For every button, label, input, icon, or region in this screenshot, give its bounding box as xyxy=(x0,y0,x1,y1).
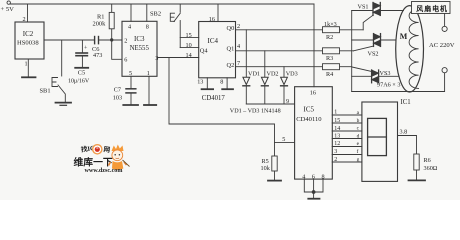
triac VS1 xyxy=(373,3,380,16)
svg-text:473: 473 xyxy=(93,52,102,59)
svg-text:VD1 – VD3 1N4148: VD1 – VD3 1N4148 xyxy=(230,109,281,115)
svg-text:VD2: VD2 xyxy=(267,70,279,77)
svg-text:VD3: VD3 xyxy=(286,70,298,77)
resistor R3 xyxy=(323,48,340,62)
node +5V terminal xyxy=(7,1,10,4)
label triac type 97A6 xyxy=(377,81,400,88)
svg-text:IC5: IC5 xyxy=(304,106,315,114)
wire IC4 pin15 stub xyxy=(180,37,199,39)
wire VS2 MT1 to motor xyxy=(381,39,397,41)
wire VS2 gate xyxy=(354,46,374,51)
wire IC4 pin16 drop xyxy=(217,4,219,22)
svg-text:10: 10 xyxy=(186,42,192,49)
display IC1 xyxy=(362,99,411,182)
resistor R4 xyxy=(323,64,340,78)
svg-text:R5: R5 xyxy=(262,158,269,165)
svg-text:+ 5V: + 5V xyxy=(1,6,15,13)
wire IC2 pin2 drop xyxy=(27,4,29,22)
wire segment d xyxy=(332,138,362,140)
svg-text:AC 220V: AC 220V xyxy=(429,42,455,49)
motor fan M xyxy=(396,6,424,92)
svg-text:C5: C5 xyxy=(78,70,85,77)
labels IC5 output pins xyxy=(334,110,340,163)
wire clock tap to IC5 xyxy=(169,58,275,157)
svg-text:2: 2 xyxy=(124,37,127,44)
wire +5V rail xyxy=(10,3,314,5)
svg-text:R4: R4 xyxy=(326,71,333,78)
node IC5 ground junction xyxy=(312,190,316,194)
pushbutton SB2 xyxy=(170,4,180,48)
ground R5 xyxy=(268,180,281,182)
svg-text:Q0: Q0 xyxy=(227,25,235,32)
wire IC4 pin13 down xyxy=(206,78,208,89)
label VS1 xyxy=(358,3,369,10)
node AC terminal top xyxy=(442,26,447,31)
svg-text:SB1: SB1 xyxy=(40,88,51,95)
ground C5 xyxy=(75,67,88,69)
label C5 value xyxy=(68,70,90,85)
svg-text:R2: R2 xyxy=(326,34,333,41)
svg-text:3: 3 xyxy=(155,55,158,62)
wire triac common line xyxy=(351,11,353,92)
wire junction down to pin6 xyxy=(112,40,122,59)
ground SB1 xyxy=(56,103,72,106)
ground IC4 pin8 xyxy=(222,88,233,90)
svg-text:14: 14 xyxy=(186,52,192,59)
wire segment e xyxy=(332,146,362,148)
labels segment letters a-g xyxy=(357,110,360,163)
wire AC bottom to common xyxy=(352,73,445,92)
svg-text:R3: R3 xyxy=(326,55,333,62)
wire segment b xyxy=(332,122,362,124)
svg-text:d: d xyxy=(357,133,360,139)
wire IC3 pin5 down xyxy=(130,76,132,88)
label pins 3.8 xyxy=(400,129,408,136)
svg-text:10μ/16V: 10μ/16V xyxy=(68,79,90,85)
counter IC5 CD40110 xyxy=(282,87,332,181)
diode VD2 xyxy=(261,51,268,104)
svg-text:IC2: IC2 xyxy=(23,30,34,38)
wire IC4 pin10 stub xyxy=(180,47,199,49)
svg-text:www.dzsc.com: www.dzsc.com xyxy=(85,168,123,174)
ground IC3 pin1 xyxy=(144,104,156,106)
svg-text:13: 13 xyxy=(197,79,203,86)
svg-text:360Ω: 360Ω xyxy=(424,165,438,172)
label SB1 xyxy=(40,88,51,95)
svg-text:VS3: VS3 xyxy=(380,70,391,77)
svg-text:CD40110: CD40110 xyxy=(296,116,322,123)
svg-text:15: 15 xyxy=(334,118,340,124)
IC2 HS0038 xyxy=(15,16,44,68)
wire IC5 pin16 drop xyxy=(313,4,315,87)
diode VD1 xyxy=(243,30,250,104)
ground C7 xyxy=(123,104,138,106)
wire VS3 MT1 to motor xyxy=(379,75,399,77)
triac VS3 xyxy=(372,70,379,83)
svg-text:Q1: Q1 xyxy=(227,46,235,53)
svg-text:15: 15 xyxy=(186,32,192,39)
svg-text:C7: C7 xyxy=(114,87,121,94)
wire IC2 pin1 to ground xyxy=(27,59,29,77)
svg-text:103: 103 xyxy=(113,95,122,102)
capacitor C6 473 xyxy=(92,37,102,60)
svg-text:1: 1 xyxy=(25,61,28,68)
watermark logo dzsc xyxy=(74,143,130,174)
capacitor C5 10u/16V electrolytic xyxy=(76,46,88,68)
wire IC3 pin1 down xyxy=(148,76,150,104)
svg-text:13: 13 xyxy=(334,134,340,140)
wire VS3 gate xyxy=(352,67,372,72)
svg-text:4: 4 xyxy=(302,173,305,180)
wire segment f xyxy=(332,154,362,156)
wire SB1 drop xyxy=(61,40,63,76)
svg-text:7: 7 xyxy=(237,60,240,67)
svg-text:SB2: SB2 xyxy=(150,11,161,18)
svg-text:5: 5 xyxy=(282,136,285,143)
wire IC5 pin5 stub xyxy=(275,141,295,143)
label AC 220V xyxy=(429,42,455,49)
wire IC1 to R6 xyxy=(398,136,417,155)
ground IC5 xyxy=(308,198,319,200)
wire IC3 pin4 drop xyxy=(130,4,132,21)
svg-text:NE555: NE555 xyxy=(130,45,150,52)
svg-text:VS2: VS2 xyxy=(368,50,379,57)
resistor R1 200k xyxy=(93,4,115,40)
wire C5 drop xyxy=(81,40,83,52)
svg-text:97A6 × 3: 97A6 × 3 xyxy=(377,81,400,88)
wire Q0 row xyxy=(236,29,364,31)
label fan motor box xyxy=(412,2,451,14)
svg-text:VS1: VS1 xyxy=(358,3,369,10)
svg-text:3: 3 xyxy=(334,149,337,155)
svg-text:4: 4 xyxy=(128,24,131,31)
wire Q1 row xyxy=(236,50,354,52)
node AC terminal bottom xyxy=(442,68,447,73)
wire VS1 gate xyxy=(363,15,373,30)
label VD2 xyxy=(267,70,279,77)
wire IC2 output xyxy=(44,39,94,41)
capacitor C7 103 xyxy=(113,87,136,105)
seven segment digit xyxy=(368,118,387,155)
wire IC5 bottom pins to ground xyxy=(304,179,323,198)
wire IC3 pin8 drop xyxy=(146,4,148,21)
resistor R6 360ohm xyxy=(414,154,438,180)
wire AC top terminal xyxy=(444,14,446,27)
svg-text:2: 2 xyxy=(23,16,26,23)
wire segment g xyxy=(332,161,362,163)
resistor R5 10k xyxy=(261,156,278,180)
svg-text:200k: 200k xyxy=(93,20,107,27)
wire VS1 MT2 xyxy=(352,10,373,12)
svg-text:4: 4 xyxy=(237,43,240,50)
svg-text:网: 网 xyxy=(103,145,111,154)
svg-text:VD1: VD1 xyxy=(248,70,260,77)
svg-text:8: 8 xyxy=(220,79,223,86)
pushbutton SB1 xyxy=(52,78,65,103)
svg-text:R6: R6 xyxy=(424,157,431,164)
svg-text:Q2: Q2 xyxy=(227,62,235,69)
ground IC4 pin13 xyxy=(202,88,214,90)
svg-text:CD4017: CD4017 xyxy=(202,95,226,102)
svg-text:f: f xyxy=(357,148,359,155)
svg-text:14: 14 xyxy=(334,126,340,132)
svg-text:2: 2 xyxy=(334,157,337,163)
svg-text:b: b xyxy=(357,118,360,124)
triac VS2 xyxy=(374,34,381,47)
label VS3 xyxy=(380,70,391,77)
wire segment c xyxy=(332,130,362,132)
svg-text:10k: 10k xyxy=(261,165,271,172)
svg-text:风扇电机: 风扇电机 xyxy=(416,4,448,13)
svg-text:9: 9 xyxy=(286,98,289,105)
svg-text:3.8: 3.8 xyxy=(400,129,408,136)
label VS2 xyxy=(368,50,379,57)
svg-text:8: 8 xyxy=(146,24,149,31)
svg-text:16: 16 xyxy=(209,16,215,23)
svg-text:1k×3: 1k×3 xyxy=(324,21,337,28)
wire IC4 pin8 down xyxy=(226,78,228,89)
label VD3 xyxy=(286,70,298,77)
wire IC5 to IC1 segment a xyxy=(332,114,362,116)
svg-text:Q4: Q4 xyxy=(200,47,209,54)
label diodes type xyxy=(230,109,281,115)
wire VS3 MT2 xyxy=(352,75,372,77)
svg-text:IC3: IC3 xyxy=(134,35,145,43)
counter IC4 CD4017 xyxy=(186,16,241,102)
svg-text:1: 1 xyxy=(334,110,337,116)
node junction R1/pin2 xyxy=(110,38,113,41)
op-amp IC3 NE555 xyxy=(122,21,158,77)
svg-text:g: g xyxy=(357,157,360,163)
svg-text:M: M xyxy=(400,32,408,41)
svg-text:IC1: IC1 xyxy=(401,99,411,106)
svg-text:6: 6 xyxy=(124,57,127,64)
label SB2 xyxy=(150,11,161,18)
wire C6 to IC3 pin2 xyxy=(99,39,123,41)
wire VS1 MT1 to motor xyxy=(380,10,403,12)
svg-text:HS0038: HS0038 xyxy=(17,40,39,47)
wire diode bus to pin9 xyxy=(246,103,294,105)
svg-text:12: 12 xyxy=(334,141,340,147)
ground R6 xyxy=(409,179,426,181)
svg-text:+: + xyxy=(84,46,88,52)
svg-text:16: 16 xyxy=(310,89,316,96)
wire IC3 pin3 to IC4 pin14 xyxy=(157,57,199,59)
svg-text:2: 2 xyxy=(237,23,240,30)
diode VD3 xyxy=(281,67,288,104)
wire Q2 row xyxy=(236,66,352,68)
resistor R2 xyxy=(323,21,340,41)
wire VS2 MT2 xyxy=(352,39,374,41)
ground IC2 xyxy=(22,76,36,78)
label VD1 xyxy=(248,70,260,77)
svg-text:IC4: IC4 xyxy=(208,37,219,45)
svg-text:维库一下: 维库一下 xyxy=(74,156,113,169)
label +5V xyxy=(1,6,15,13)
svg-text:5: 5 xyxy=(129,70,132,77)
